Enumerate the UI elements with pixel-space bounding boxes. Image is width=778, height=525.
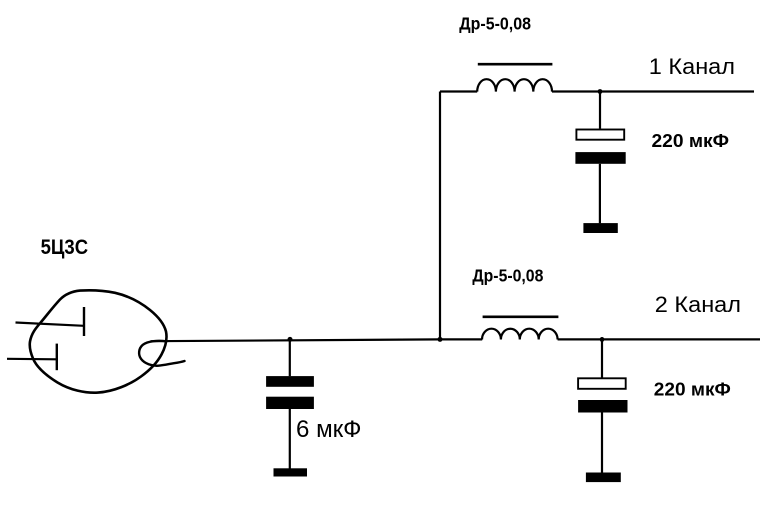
wire: node A down to C1: [289, 339, 291, 376]
wire: tube output to node B: [151, 339, 441, 341]
svg-text:220 мкФ: 220 мкФ: [652, 131, 730, 151]
junction node C: [598, 89, 603, 94]
wire: node C down to C2: [599, 92, 601, 129]
svg-text:220 мкФ: 220 мкФ: [654, 379, 731, 399]
svg-text:6 мкФ: 6 мкФ: [296, 416, 362, 443]
ground bar for C3: [586, 473, 621, 483]
wire: L2 to channel 2 output: [558, 338, 760, 340]
wire: C1 to ground: [289, 409, 291, 469]
junction node B: [438, 337, 443, 342]
junction node D: [600, 337, 605, 342]
wire: rail to inductor L1: [440, 90, 477, 92]
inductor L2 core bar: [483, 315, 559, 318]
wire: L1 to channel 1 output: [552, 90, 754, 92]
inductor L1 core bar: [478, 63, 553, 66]
capacitor C3 (220 мкФ) positive plate: [578, 378, 626, 389]
tube anode lead (top): [16, 323, 84, 326]
tube anode lead (bottom): [7, 358, 57, 361]
inductor L1 winding (Др-5-0,08): [477, 79, 552, 91]
svg-text:5Ц3С: 5Ц3С: [41, 236, 89, 259]
wire: C2 to ground: [599, 164, 601, 224]
inductor L2 winding (Др-5-0,08): [482, 329, 558, 340]
svg-text:1 Канал: 1 Канал: [649, 54, 735, 79]
junction node A: [288, 337, 293, 342]
svg-text:Др-5-0,08: Др-5-0,08: [472, 265, 543, 285]
svg-text:2 Канал: 2 Канал: [655, 292, 741, 317]
wire: C3 to ground: [601, 413, 603, 473]
wire: node D down to C3: [601, 339, 603, 377]
capacitor C2 negative plate: [575, 152, 625, 164]
tube anode plate bar (bottom): [56, 344, 58, 371]
capacitor C1 bottom plate: [266, 397, 314, 409]
ground bar for C1: [274, 468, 308, 476]
capacitor C2 (220 мкФ) positive plate: [576, 130, 624, 140]
capacitor C1 (6 мкФ) top plate: [266, 376, 314, 387]
wire: node B to inductor L2: [440, 338, 482, 340]
svg-text:Др-5-0,08: Др-5-0,08: [459, 14, 531, 34]
vacuum tube V1 envelope: [30, 290, 167, 392]
tube anode plate bar (top): [83, 307, 85, 336]
ground bar for C2: [583, 223, 617, 233]
tube cathode filament loop: [139, 341, 184, 366]
capacitor C3 negative plate: [578, 400, 627, 413]
wire: node B up to channel 1 rail: [439, 92, 441, 340]
